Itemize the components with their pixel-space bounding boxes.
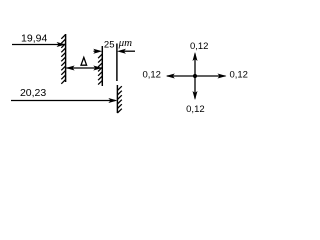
25 dimension left arrowhead pointing right bbox=[93, 49, 102, 54]
cross down arrowhead bbox=[193, 91, 198, 100]
delta double-arrow dimension line bbox=[67, 67, 102, 69]
svg-text:0,12: 0,12 bbox=[229, 70, 248, 81]
surface B hatching (left side) bbox=[98, 54, 102, 85]
surface A hatching (left side) bbox=[61, 35, 65, 84]
svg-text:0,12: 0,12 bbox=[190, 41, 209, 52]
cross right arrowhead bbox=[218, 74, 227, 79]
dimension line 20,23 bbox=[11, 100, 116, 102]
surface A line (left anvil face) bbox=[65, 34, 67, 82]
svg-text:20,23: 20,23 bbox=[20, 87, 46, 99]
surface C line (lower measured face) bbox=[116, 85, 118, 113]
svg-text:μm: μm bbox=[118, 37, 133, 49]
cross up arrowhead bbox=[193, 52, 198, 61]
arrowhead of 20,23 pointing right into surface C bbox=[108, 98, 117, 103]
delta arrowhead right bbox=[93, 66, 102, 71]
delta gap label bbox=[81, 57, 87, 65]
svg-text:0,12: 0,12 bbox=[142, 70, 161, 81]
surface B line (right jaw face) bbox=[101, 46, 103, 86]
dimension line 19,94 bbox=[12, 44, 64, 46]
25 dimension right tail line bbox=[123, 50, 135, 52]
svg-text:0,12: 0,12 bbox=[186, 104, 205, 115]
surface C extension line bbox=[116, 44, 118, 82]
25 dimension left tail line bbox=[94, 50, 97, 52]
surface C hatching (right side) bbox=[117, 86, 121, 113]
svg-text:19,94: 19,94 bbox=[21, 32, 47, 44]
svg-text:25: 25 bbox=[104, 40, 115, 51]
25 dimension right arrowhead pointing left bbox=[117, 49, 126, 54]
arrowhead of 19,94 pointing right into surface A bbox=[57, 42, 66, 47]
delta arrowhead left bbox=[66, 66, 75, 71]
cross vertical line bbox=[194, 54, 196, 99]
cross center dot bbox=[193, 74, 197, 78]
cross horizontal line bbox=[167, 75, 226, 77]
cross left arrowhead bbox=[166, 74, 175, 79]
